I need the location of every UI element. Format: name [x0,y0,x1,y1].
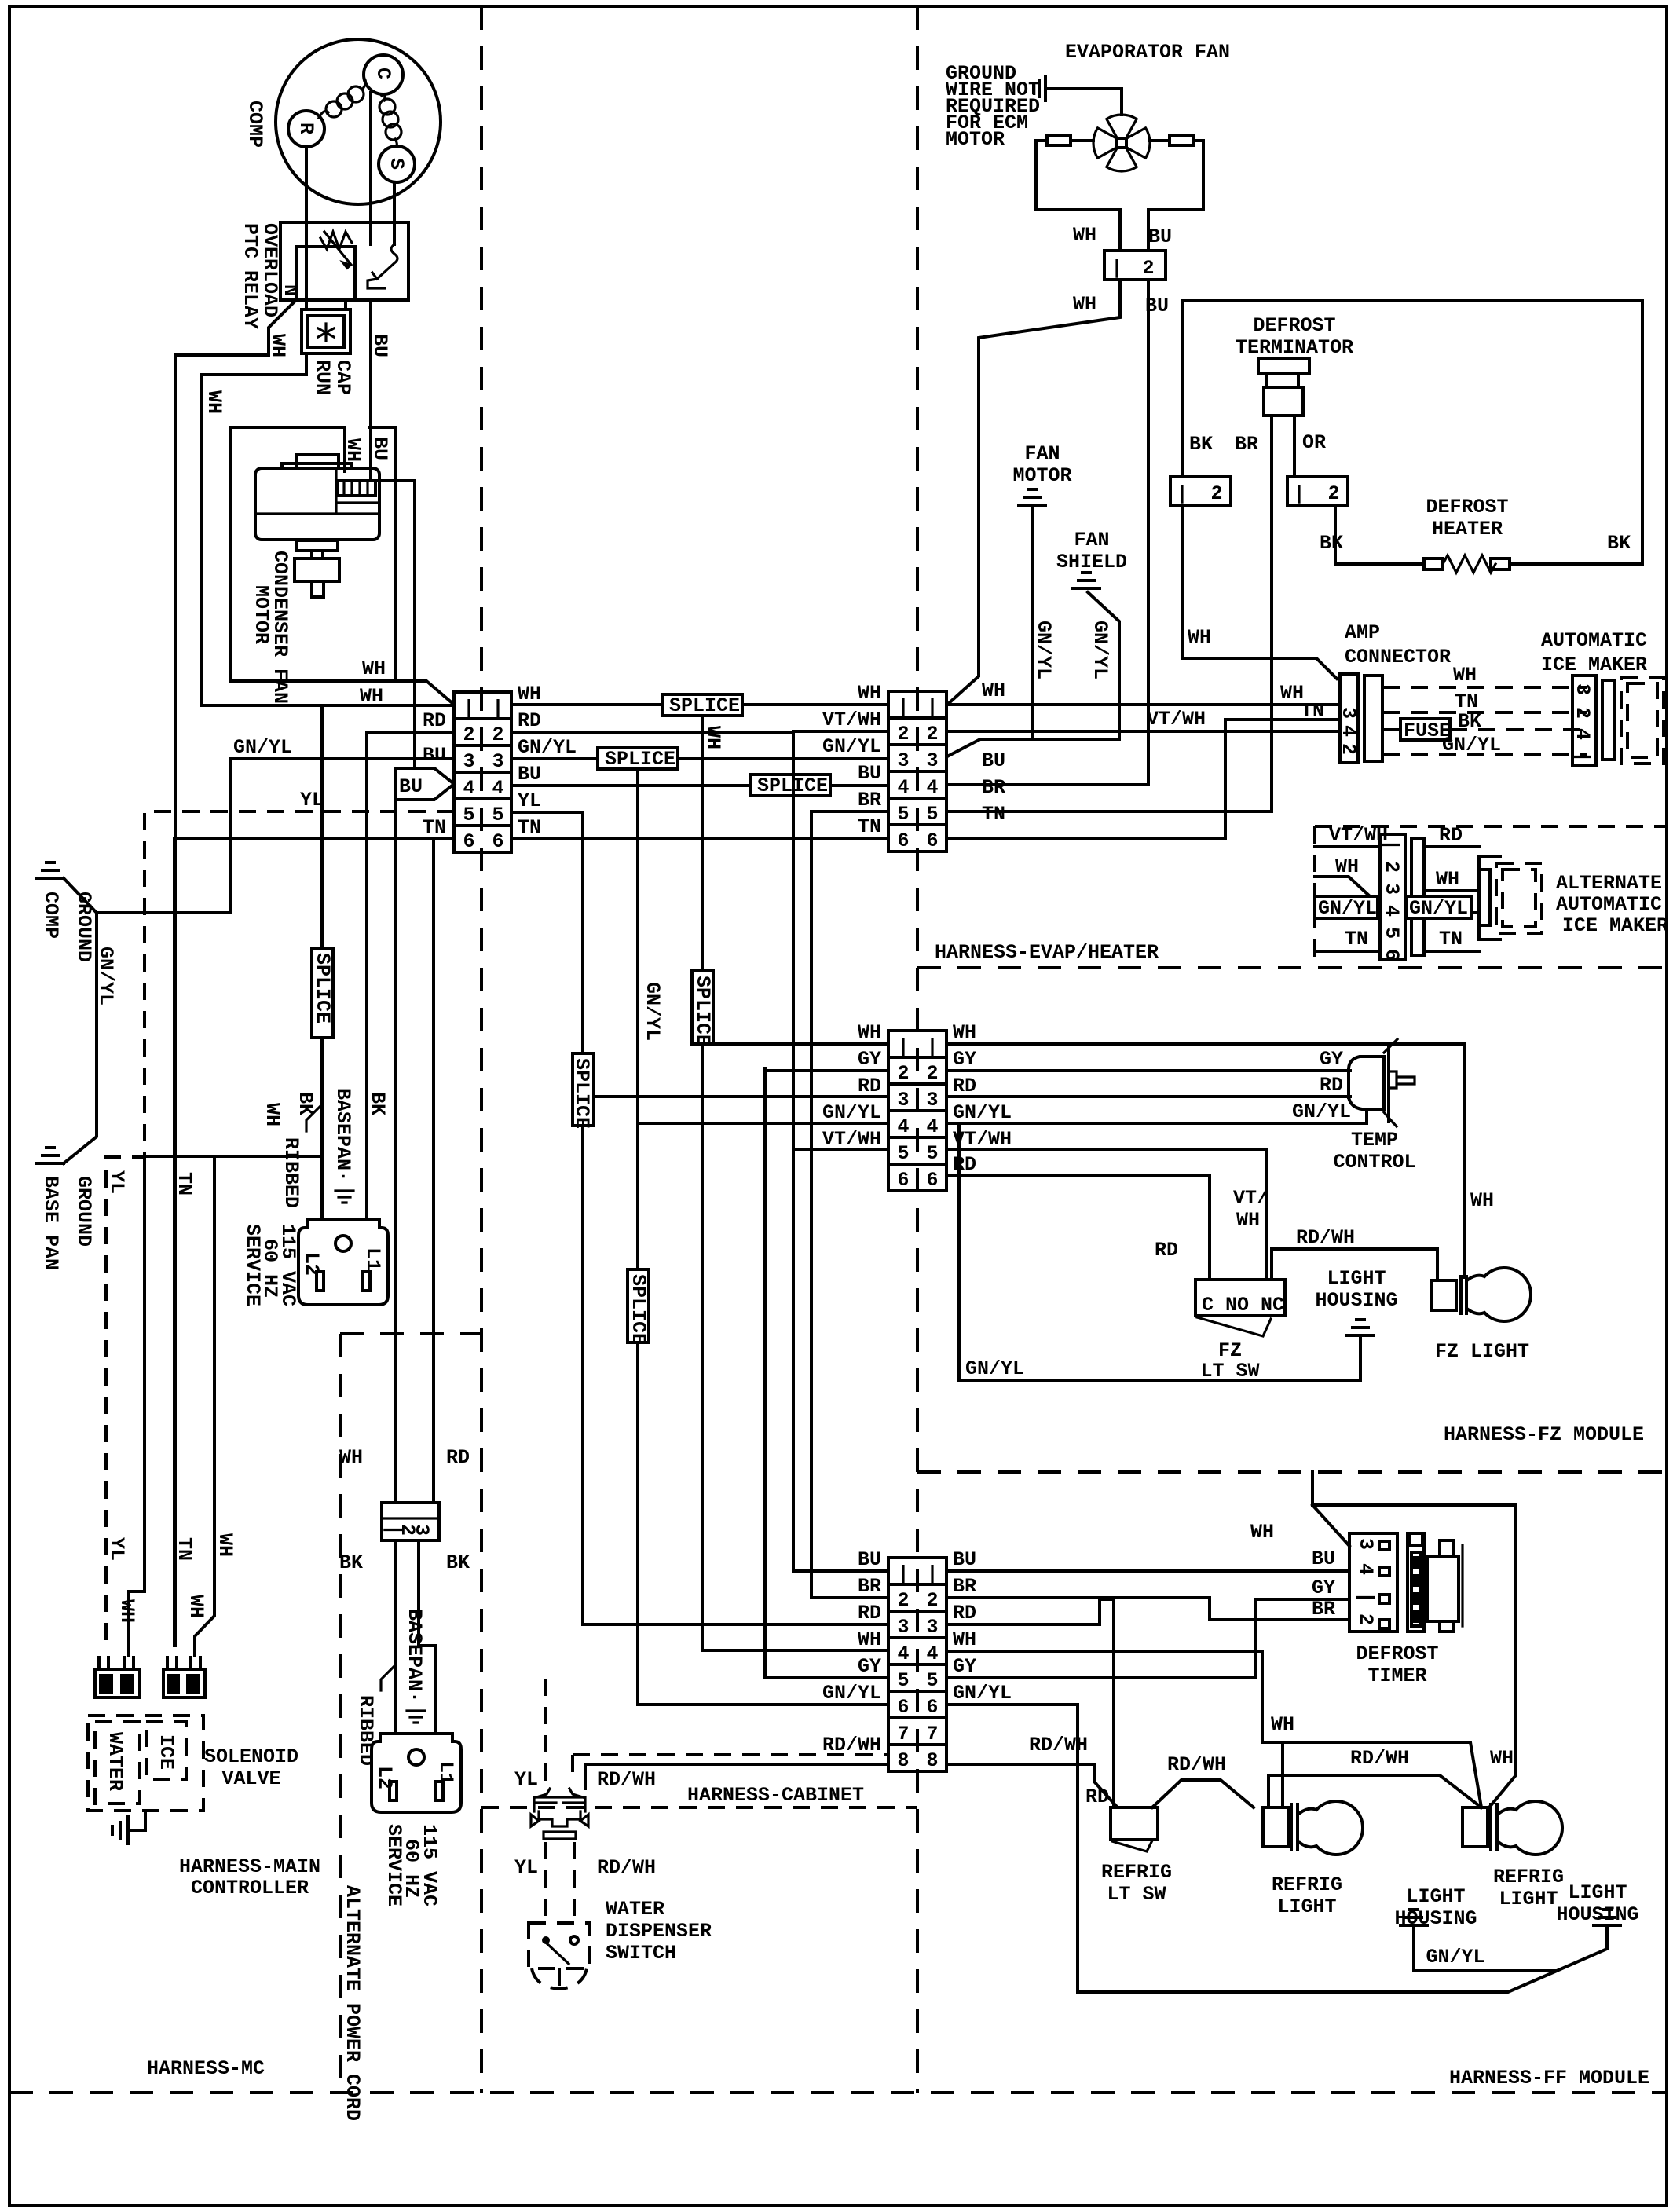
svg-text:GN/YL: GN/YL [822,1682,881,1705]
cabinet inline connector [531,1789,588,1839]
svg-text:BU: BU [368,334,391,357]
svg-text:LIGHT: LIGHT [1406,1885,1465,1908]
svg-text:|: | [1354,1591,1377,1603]
svg-text:|: | [926,1035,938,1058]
svg-text:COMP: COMP [243,101,266,148]
svg-text:|: | [926,696,938,719]
svg-text:YL: YL [105,1170,128,1194]
svg-text:2: 2 [1571,707,1594,719]
svg-text:WH: WH [266,334,289,357]
switch dome dashed [532,1968,587,1989]
svg-text:BR: BR [858,1575,881,1598]
wire GN/YL fan motor [1031,505,1034,739]
svg-text:3: 3 [492,750,503,773]
condenser motor body [255,468,379,540]
svg-text:6: 6 [897,1169,909,1192]
ribbed tick mark [306,1106,320,1131]
wire valve to ground [128,1811,145,1830]
svg-text:|: | [897,696,909,719]
svg-text:YL: YL [514,1768,538,1791]
switch contacts [542,1936,550,1944]
wire GN/YL into pin4 [1315,911,1380,914]
svg-text:DISPENSER: DISPENSER [606,1920,712,1943]
wire WH drop to P3 pin1 and P4 pin4 [702,717,888,1650]
wire BR P4 pin2 to timer pin2 [946,1598,1349,1620]
svg-text:SPLICE: SPLICE [605,748,675,771]
svg-text:SOLENOID: SOLENOID [204,1745,298,1768]
wire RD P4 pin3 to refrig switch [946,1599,1114,1807]
ice maker body dashed [1621,677,1664,764]
dashed WH to ice maker [1382,686,1587,689]
evaporator fan blades [1093,115,1150,171]
wire BR P2 pin5 to P4 pin2 [811,811,888,1598]
svg-text:ICE: ICE [155,1734,178,1770]
svg-text:VALVE: VALVE [221,1767,280,1790]
svg-text:VT/WH: VT/WH [822,709,881,731]
svg-text:SHIELD: SHIELD [1056,551,1127,573]
svg-text:WH: WH [858,1628,881,1651]
wire GY P4 pin5 to timer pin1 [946,1599,1349,1678]
svg-text:2: 2 [897,1589,909,1612]
svg-text:3: 3 [897,749,909,772]
svg-text:AUTOMATIC: AUTOMATIC [1556,893,1662,916]
svg-text:SPLICE: SPLICE [691,976,714,1046]
wire WH into timer pin3 [1312,1472,1515,1807]
splice (vertical) on YL/RD run [573,1053,594,1126]
svg-text:MOTOR: MOTOR [1012,464,1071,487]
splice (vertical) on WH drop [692,971,713,1044]
svg-text:WATER: WATER [104,1732,126,1791]
svg-text:|: | [463,697,474,720]
svg-text:HARNESS-MC: HARNESS-MC [147,2057,265,2080]
wire VT/WH P2 pin2 to P3 pin5 and BU drop to P4 pin1 [793,731,888,1571]
svg-text:|: | [1380,839,1403,851]
water sub-box dashed [95,1722,140,1804]
wire TN P1 to P2 [511,837,888,840]
svg-text:4: 4 [897,776,909,799]
terminal R circle [288,111,324,147]
svg-text:GN/YL: GN/YL [953,1682,1012,1705]
svg-text:GN/YL: GN/YL [1032,621,1055,679]
svg-text:SPLICE: SPLICE [311,953,334,1024]
svg-text:TERMINATOR: TERMINATOR [1236,336,1353,359]
wire WH to ice solenoid [195,1156,214,1656]
svg-text:2: 2 [926,1062,938,1085]
svg-text:3: 3 [1354,1538,1377,1550]
svg-text:2: 2 [1210,482,1222,505]
wire YL P1 pin5 / RD run to P3 pin3 and P4 pin3 [511,812,888,1624]
svg-text:RD: RD [1320,1074,1343,1097]
svg-text:ALTERNATE POWER CORD: ALTERNATE POWER CORD [341,1885,364,2121]
svg-text:2: 2 [1337,743,1360,755]
svg-text:WH: WH [1073,293,1096,316]
svg-text:TN: TN [1301,700,1324,723]
svg-text:5: 5 [926,1669,938,1692]
svg-text:GN/YL: GN/YL [953,1101,1012,1124]
water dispenser switch dashed box [529,1923,590,1968]
svg-text:VT/WH: VT/WH [953,1128,1012,1151]
svg-text:FAN: FAN [1024,442,1060,465]
wire TN out [1424,950,1479,953]
svg-text:EVAPORATOR FAN: EVAPORATOR FAN [1065,41,1230,64]
fan motor housing wires [1036,141,1120,251]
defrost timer body [1408,1533,1424,1632]
ground wire symbol [1034,77,1045,101]
svg-text:5: 5 [926,1142,938,1165]
wire BR from terminator to P2 pin5 [946,416,1272,811]
wire VT/WH into pin1 [1315,845,1380,848]
wire BU from relay down [369,300,372,481]
svg-text:DEFROST: DEFROST [1356,1643,1438,1665]
svg-text:SERVICE: SERVICE [241,1224,264,1306]
svg-text:WH: WH [1250,1521,1274,1544]
svg-text:|: | [897,1562,909,1585]
svg-text:RD/WH: RD/WH [1296,1226,1355,1249]
svg-text:GN/YL: GN/YL [822,1101,881,1124]
svg-text:2: 2 [926,723,938,745]
svg-text:RD: RD [1439,824,1463,847]
dashed partition: alternate power cord (top horizontal) [340,1332,481,1335]
svg-text:MOTOR: MOTOR [250,585,273,644]
wire GN/YL to temp control [946,1122,1367,1125]
wire OR from terminator [1293,416,1296,477]
svg-text:3: 3 [463,750,474,773]
splice (vertical) on WH [312,948,333,1038]
plug 115VAC body [298,1220,388,1305]
svg-text:2: 2 [1380,861,1403,873]
svg-text:3: 3 [926,749,938,772]
svg-text:GN/YL: GN/YL [1318,897,1377,920]
temp control symbol [1349,1057,1384,1123]
alt ice maker body bracket [1479,856,1500,939]
svg-text:TIMER: TIMER [1367,1664,1426,1687]
wire WH condenser to pin 1 [202,704,454,707]
svg-text:2: 2 [897,723,909,745]
svg-text:WATER: WATER [606,1898,664,1921]
svg-text:TEMP: TEMP [1351,1129,1398,1152]
svg-text:WH: WH [339,1446,363,1469]
svg-text:SPLICE: SPLICE [570,1058,593,1129]
wire WH into pin3 [1315,877,1380,896]
svg-text:3: 3 [1380,883,1403,895]
svg-text:WH: WH [1470,1189,1494,1212]
svg-text:WH: WH [1236,1209,1260,1232]
wire VT/WH P3 pin5 to FZ switch [946,1149,1266,1280]
svg-text:WH: WH [1335,855,1359,878]
wire RD P3 pin6 to FZ switch [946,1176,1210,1280]
svg-text:5: 5 [463,804,474,826]
wire RD to temp control [946,1095,1350,1098]
svg-text:RD: RD [423,709,446,732]
splice on GN/YL [598,748,678,769]
svg-text:WH: WH [362,657,386,680]
svg-text:RD/WH: RD/WH [822,1734,881,1756]
dashed YL wire upper [544,1679,547,1789]
wire VT/WH P2 pin2 to AMP pin2 [946,730,1340,733]
fan lead resistor left [1047,136,1071,145]
svg-text:CONNECTOR: CONNECTOR [1345,646,1451,668]
svg-text:5: 5 [897,1142,909,1165]
svg-text:BU: BU [399,775,423,798]
svg-text:R: R [295,123,317,134]
connector P1 body [454,692,511,852]
svg-text:REFRIG: REFRIG [1272,1873,1342,1896]
wire RD/WH switch to refrig light 1 [1152,1780,1254,1807]
svg-text:GY: GY [1312,1577,1335,1599]
splice (vertical) on GN/YL drop [628,1269,649,1342]
svg-text:BR: BR [953,1575,976,1598]
svg-text:|: | [1293,482,1305,505]
wire WH from N terminal [175,302,295,1646]
svg-text:BU: BU [858,1548,881,1571]
wire GN/YL fan shield [1088,592,1119,739]
BU flag into pin 4 [395,768,454,800]
svg-text:3: 3 [897,1089,909,1111]
AMP connector halves [1340,674,1358,763]
overload / PTC relay box [280,222,408,300]
defrost timer connector [1349,1533,1397,1632]
svg-text:4: 4 [926,776,938,799]
svg-text:RD/WH: RD/WH [597,1768,656,1791]
svg-text:BR: BR [982,776,1005,799]
svg-text:HARNESS-FF MODULE: HARNESS-FF MODULE [1449,2067,1649,2089]
svg-text:6: 6 [1380,949,1403,961]
svg-text:4: 4 [926,1115,938,1138]
defrost heater BK loop [1183,301,1642,564]
svg-text:7: 7 [897,1723,909,1745]
svg-text:VT/: VT/ [1233,1187,1268,1210]
wire RD/WH to cabinet connector [585,1764,888,1789]
svg-text:VT/WH: VT/WH [1147,708,1206,731]
svg-text:RD: RD [858,1602,881,1624]
BK connector 1-2 [1170,477,1231,505]
svg-text:TN: TN [173,1172,196,1196]
svg-text:OR: OR [1302,431,1326,454]
wire RD P1 pin2 right [511,731,793,734]
fan shield ground [1073,573,1100,588]
svg-text:HEATER: HEATER [1432,518,1503,540]
wire WH fan to P2 pin1 [947,280,1120,705]
run capacitor RUN CAP [302,309,350,353]
svg-text:WH: WH [1188,626,1211,649]
dashed YL to switch [544,1842,547,1923]
svg-text:C NO NC: C NO NC [1202,1294,1284,1317]
dashed TN to ice maker [1382,711,1587,714]
svg-text:RUN: RUN [311,360,334,395]
FZ switch flap [1197,1317,1271,1336]
dashed YL pin5 left [106,811,454,1650]
svg-text:L2: L2 [373,1766,396,1789]
svg-text:GY: GY [953,1655,976,1678]
PTC relay inner box [297,247,355,300]
ground symbol at solenoid valve [112,1817,128,1844]
fan lead resistor right [1170,136,1193,145]
svg-text:BU: BU [858,762,881,785]
svg-text:TN: TN [1345,928,1368,950]
svg-text:|: | [897,1035,909,1058]
svg-text:HARNESS-MAIN: HARNESS-MAIN [179,1855,320,1878]
svg-text:GY: GY [858,1048,881,1071]
svg-text:WH: WH [858,682,881,705]
comp ground symbol [37,862,64,878]
svg-text:WH: WH [982,679,1005,702]
svg-text:4: 4 [926,1643,938,1665]
dashed partition: harness-fz module bottom [917,1470,1667,1474]
wire WH P1 to P2 [511,703,888,706]
svg-text:3: 3 [926,1616,938,1639]
wire BU P1 to P2 [511,784,888,787]
svg-text:RIBBED: RIBBED [280,1137,302,1208]
svg-text:WH: WH [115,1599,138,1623]
svg-text:4: 4 [897,1643,909,1665]
svg-text:|: | [1571,751,1594,763]
wire GN/YL housings to P4 pin6 [946,1705,1607,1992]
ice sub-box dashed [146,1722,186,1779]
svg-text:BR: BR [1235,433,1258,456]
svg-text:WH: WH [185,1595,207,1618]
svg-text:GROUND: GROUND [72,892,95,962]
svg-text:|: | [926,1562,938,1585]
connector 1-2-3 block [382,1503,439,1540]
plug face circle [335,1236,351,1251]
svg-text:5: 5 [492,804,503,826]
svg-text:BU: BU [368,437,391,460]
svg-text:GN/YL: GN/YL [233,736,292,759]
svg-text:DEFROST: DEFROST [1253,314,1335,337]
wire WH splice drop [129,705,322,1656]
svg-text:GN/YL: GN/YL [1089,621,1111,679]
plug prong L2 [390,1782,397,1800]
svg-text:RD/WH: RD/WH [1167,1753,1226,1776]
wire GN/YL down to base pan ground [64,913,97,1163]
svg-text:GN/YL: GN/YL [822,735,881,758]
wire BU condenser to flag [371,481,415,768]
svg-text:LT SW: LT SW [1107,1883,1166,1906]
svg-text:TN: TN [423,816,446,839]
ice maker connector pins [1572,676,1596,766]
dashed partition: main controller / evap (vertical through connector P1) [480,6,483,2093]
motor terminal comb [338,481,375,496]
refrig light 2 bulb [1463,1807,1488,1847]
svg-text:GN/YL: GN/YL [1292,1101,1351,1123]
svg-text:L1: L1 [361,1247,384,1271]
wire BK left below connector [394,1540,397,1734]
plug prong L1 [436,1782,443,1800]
wire WH P4 pin4 to refrig light 1 [946,1651,1481,1807]
svg-text:L2: L2 [300,1252,323,1276]
wire BK OR connector to heater [1335,505,1424,564]
terminal S circle [379,146,415,182]
svg-text:RD: RD [953,1153,976,1176]
wire WH from BK connector to AMP pin1 [1183,505,1337,679]
svg-text:CAP: CAP [331,360,354,395]
svg-text:6: 6 [926,829,938,852]
svg-text:4: 4 [1380,905,1403,917]
wire BK right below connector [419,1540,435,1734]
svg-text:ALTERNATE: ALTERNATE [1556,872,1662,895]
svg-text:BK: BK [339,1551,363,1574]
svg-text:BK: BK [1189,433,1213,456]
svg-text:GROUND: GROUND [72,1176,95,1247]
svg-text:3: 3 [1337,707,1360,719]
wire comp ground diag [64,759,230,913]
fan motor ground [1019,489,1045,505]
wire RD/WH P4 pin8 to refrig switch [946,1764,1116,1806]
motor top cap [296,455,339,468]
motor shaft [296,540,338,551]
svg-text:HARNESS-EVAP/HEATER: HARNESS-EVAP/HEATER [935,941,1159,964]
svg-text:ICE MAKER: ICE MAKER [1541,654,1647,676]
svg-text:BR: BR [1312,1598,1335,1621]
svg-text:2: 2 [1142,257,1154,280]
svg-text:DEFROST: DEFROST [1426,496,1508,518]
svg-text:BASEPAN·: BASEPAN· [331,1088,354,1182]
svg-text:GY: GY [953,1048,976,1071]
svg-text:WH: WH [701,726,724,749]
svg-text:YL: YL [518,789,541,812]
svg-text:2: 2 [926,1589,938,1612]
svg-text:5: 5 [1380,927,1403,939]
svg-text:FAN: FAN [1074,529,1109,551]
svg-text:L1: L1 [434,1761,457,1785]
run cap wire from PTC box [344,300,347,309]
plug prong L1 [363,1272,370,1291]
run winding coil R-C [319,79,365,118]
svg-text:4: 4 [492,777,503,800]
water solenoid connector [95,1656,140,1697]
PTC resistor zigzag with arrow [320,232,352,249]
light housing 2 ground [1594,1910,1620,1925]
plug face circle [408,1749,424,1765]
wire TN P2 pin6 to AMP pin4 [946,720,1340,838]
wire GY P3 pin2 to P4 pin5 [765,1068,888,1678]
wire S into relay box [393,182,396,244]
dashed partition: cabinet / modules (vertical through connectors P2-P4) [916,6,919,2093]
svg-text:TN: TN [858,815,881,838]
svg-text:REFRIG: REFRIG [1101,1861,1172,1884]
OR connector 1-2 [1287,477,1348,505]
refrig switch flap [1112,1840,1152,1851]
solenoid valve dashed box [88,1716,203,1811]
wire RD/WH light1 to light2 [1268,1775,1481,1807]
alt ice maker connector bars [1411,839,1424,955]
svg-text:2: 2 [897,1062,909,1085]
terminal C circle [364,55,403,94]
svg-text:WH: WH [953,1021,976,1044]
svg-text:AUTOMATIC: AUTOMATIC [1541,629,1647,652]
svg-text:MOTOR: MOTOR [946,128,1005,151]
FZ light bulb [1431,1280,1456,1310]
svg-text:BASEPAN·: BASEPAN· [403,1609,426,1703]
svg-text:HOUSING: HOUSING [1556,1903,1638,1926]
defrost heater element [1424,558,1443,569]
svg-text:CONTROL: CONTROL [1333,1151,1415,1174]
svg-text:FZ: FZ [1218,1339,1242,1362]
svg-text:GY: GY [858,1655,881,1678]
wire BU fan to P2 pin4 [946,280,1148,785]
ice maker connector bars [1602,680,1615,760]
svg-text:2: 2 [463,723,474,746]
ice solenoid connector [163,1656,205,1697]
svg-text:6: 6 [492,830,503,853]
svg-text:N: N [279,284,302,296]
refrig light switch box [1111,1807,1158,1840]
svg-text:TN: TN [1439,928,1463,950]
svg-text:BU: BU [1148,225,1172,248]
dashed RD/WH to switch [573,1842,576,1923]
svg-text:YL: YL [105,1537,128,1561]
wire TN pin6 left [174,839,454,1646]
